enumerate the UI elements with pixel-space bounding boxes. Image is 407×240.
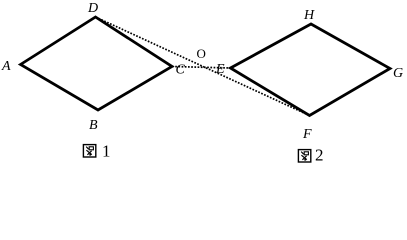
svg-text:1: 1 [102,142,111,161]
svg-text:2: 2 [315,146,324,165]
svg-text:O: O [197,46,206,61]
svg-text:B: B [89,118,98,133]
svg-text:D: D [87,1,98,16]
svg-text:G: G [393,66,403,81]
svg-text:E: E [215,62,225,77]
svg-text:A: A [1,59,11,74]
svg-text:H: H [303,8,315,23]
svg-text:F: F [302,127,312,142]
svg-text:C: C [176,63,186,78]
